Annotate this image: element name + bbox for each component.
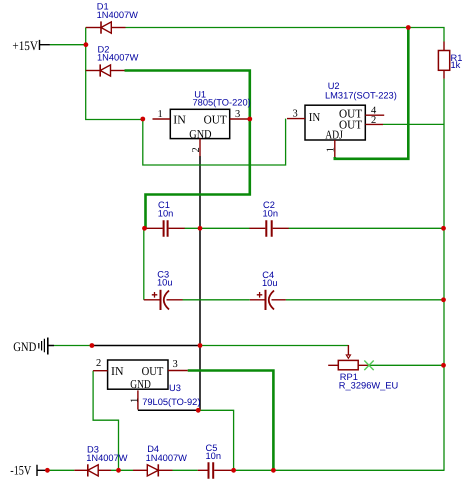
wire: +15V port to rail: [50, 44, 86, 46]
svg-text:2: 2: [371, 115, 376, 126]
svg-text:1N4007W: 1N4007W: [86, 453, 128, 463]
wire: thick net from D2 to C1 junction: [125, 71, 250, 229]
svg-text:2: 2: [96, 358, 101, 369]
no-connect X marker: [364, 361, 373, 371]
node top right ADJ rail: [406, 25, 411, 30]
wire: U1 IN down, across, up to U2 IN: [143, 119, 286, 165]
svg-text:10u: 10u: [262, 278, 278, 288]
svg-text:LM317(SOT-223): LM317(SOT-223): [325, 90, 397, 100]
wire: thick U3 OUT net: [188, 371, 274, 471]
svg-text:1: 1: [326, 147, 337, 152]
svg-text:IN: IN: [173, 112, 186, 126]
port -15V: [10, 462, 45, 477]
node +15V junction: [84, 42, 89, 47]
wire: black U3 GND horizontal: [138, 409, 198, 411]
RP1 wiper arrowhead: [346, 355, 350, 358]
svg-text:3: 3: [293, 109, 298, 120]
wire: left vertical +15V rail down to U1 IN: [86, 28, 144, 120]
wire: GND net black horizontal: [92, 345, 200, 347]
pin 2: [365, 123, 383, 125]
node RP1 right rail: [441, 363, 446, 368]
capacitor C4 (polarized): [250, 270, 286, 310]
node C5 right: [231, 468, 236, 473]
wire: U2 OUT pin2 to right rail: [383, 123, 444, 125]
svg-text:1N4007W: 1N4007W: [146, 453, 188, 463]
diode D3: [74, 444, 127, 476]
capacitor C1: [145, 200, 185, 237]
node -15V port: [45, 468, 50, 473]
node C1 left: [142, 226, 147, 231]
wire: C3-C4 row segments: [183, 299, 444, 301]
svg-text:R_3296W_EU: R_3296W_EU: [339, 381, 398, 391]
svg-text:IN: IN: [309, 110, 321, 124]
pin 2: [199, 139, 201, 157]
op-amp U3 (regulator 79L05): [93, 358, 200, 410]
pin 2: [93, 370, 108, 372]
svg-text:-15V: -15V: [10, 462, 31, 477]
svg-text:1N4007W: 1N4007W: [97, 10, 139, 20]
op-amp U1 (regulator 7805): [153, 90, 251, 157]
node U1 IN: [140, 117, 145, 122]
svg-text:ADJ: ADJ: [325, 127, 343, 141]
svg-text:7805(TO-220): 7805(TO-220): [193, 97, 251, 107]
svg-text:10n: 10n: [206, 451, 222, 461]
pin 3: [168, 370, 188, 372]
diode D1: [86, 2, 138, 34]
svg-text:10n: 10n: [263, 208, 279, 218]
pin 1: [137, 390, 139, 409]
svg-text:IN: IN: [111, 364, 124, 378]
svg-text:GND: GND: [13, 339, 36, 354]
svg-text:1k: 1k: [451, 60, 461, 70]
diode D2: [86, 45, 139, 77]
svg-text:1: 1: [129, 398, 140, 403]
node D3-D4: [116, 468, 121, 473]
wire: U3 IN jog down to -15V row: [93, 371, 118, 471]
wire: -15V row segments: [47, 469, 444, 471]
wire: RP1 right to rail: [369, 364, 444, 366]
wire: GND row to RP1 wiper: [200, 345, 348, 347]
svg-text:3: 3: [235, 109, 240, 120]
resistor R1: [438, 42, 462, 79]
capacitor C5: [198, 443, 234, 479]
pin 1: [153, 118, 171, 120]
wire: D1 cathode rail top, to R1 top corner: [126, 28, 445, 42]
node GND mid: [198, 343, 203, 348]
node GND port: [90, 343, 95, 348]
wire: C3 left vertical from C1 junction: [143, 228, 145, 299]
svg-text:10u: 10u: [157, 278, 173, 288]
capacitor C3 (polarized): [144, 269, 183, 310]
svg-text:10n: 10n: [158, 208, 174, 218]
node C1 right / GND net: [198, 226, 203, 231]
svg-text:1: 1: [158, 109, 163, 120]
svg-text:+15V: +15V: [12, 38, 38, 53]
op-amp U2 (regulator LM317): [287, 81, 397, 157]
svg-text:GND: GND: [130, 377, 151, 391]
RP1 wiper pin stub: [347, 345, 349, 355]
pin 3: [230, 118, 249, 120]
svg-text:79L05(TO-92): 79L05(TO-92): [142, 397, 200, 407]
wire: right rail below R1: [443, 79, 445, 471]
pin 1 ADJ: [334, 140, 336, 157]
port GND: [13, 338, 54, 355]
pin 4: [365, 114, 384, 116]
wire: C1-C2 row segments: [185, 227, 444, 229]
node U3 GND: [196, 408, 201, 413]
pin 3: [287, 118, 305, 120]
potentiometer RP1: [328, 345, 398, 391]
svg-text:1N4007W: 1N4007W: [97, 53, 139, 63]
node C2 right rail: [441, 226, 446, 231]
wire: thick U2 ADJ net: [335, 28, 409, 159]
wire: U3 GND junction to C5 top: [198, 410, 233, 470]
capacitor C2: [249, 200, 288, 237]
diode D4: [133, 444, 187, 476]
node C4 right rail: [441, 297, 446, 302]
svg-text:2: 2: [191, 147, 202, 152]
node U1 OUT: [247, 117, 252, 122]
svg-text:U3: U3: [169, 383, 181, 393]
port +15V: [12, 38, 50, 53]
svg-text:OUT: OUT: [204, 112, 228, 126]
node U3 OUT rail bottom: [271, 468, 276, 473]
wire: black GND vertical from U1 pin2: [199, 156, 201, 410]
svg-text:3: 3: [173, 359, 178, 370]
wire: GND port to junction: [54, 345, 92, 347]
